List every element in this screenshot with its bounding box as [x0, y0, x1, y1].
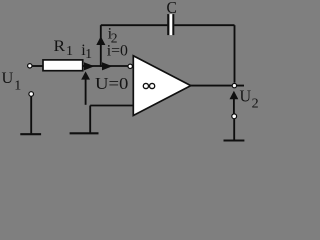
svg-text:1: 1	[85, 46, 92, 61]
svg-text:C: C	[167, 0, 177, 17]
svg-text:R: R	[54, 38, 66, 55]
svg-text:i=0: i=0	[107, 43, 128, 60]
svg-text:U=0: U=0	[95, 74, 128, 93]
svg-text:U: U	[2, 70, 14, 87]
svg-text:U: U	[240, 86, 252, 105]
svg-text:1: 1	[66, 44, 73, 59]
svg-text:1: 1	[14, 78, 21, 93]
svg-text:2: 2	[252, 97, 259, 112]
